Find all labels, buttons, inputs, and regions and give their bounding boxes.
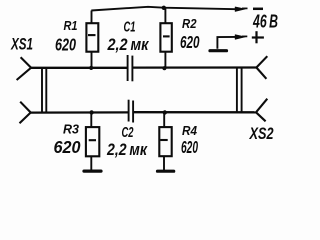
cable marks left <box>42 68 46 114</box>
node R2/top wire <box>162 66 166 70</box>
node R4/bottom wire <box>163 110 167 114</box>
node rail/R2 <box>162 6 166 10</box>
ground (top right) <box>210 49 227 52</box>
wire R3 stem bottom <box>90 156 92 170</box>
top line wire (left of C1) <box>31 67 127 69</box>
top line wire (right of C1) <box>133 66 257 68</box>
capacitor C2 <box>129 100 134 123</box>
svg-text:R3: R3 <box>63 122 80 137</box>
wire R2 stem bottom <box>164 52 166 69</box>
connector XS1 pin top <box>17 57 32 80</box>
svg-text:2,2 мк: 2,2 мк <box>106 140 148 159</box>
bottom line wire (left of C2) <box>31 111 129 113</box>
svg-text:620: 620 <box>180 32 200 52</box>
ground (R3) <box>84 170 101 173</box>
connector XS1 pin bottom <box>20 102 31 124</box>
plus sign <box>252 31 264 43</box>
top supply rail <box>91 7 236 11</box>
plus lead wire <box>217 37 236 49</box>
wire R3 stem top <box>90 113 92 128</box>
plus lead arrow <box>242 35 247 37</box>
svg-text:2,2 мк: 2,2 мк <box>107 35 150 54</box>
ground (R4) <box>158 170 174 173</box>
svg-text:620: 620 <box>55 34 76 54</box>
svg-text:620: 620 <box>54 137 81 157</box>
node R1/top wire <box>89 66 93 70</box>
wire R1 stem top <box>91 11 93 24</box>
svg-text:XS1: XS1 <box>10 36 33 54</box>
svg-text:C2: C2 <box>122 125 134 141</box>
connector XS2 pin top <box>256 56 267 79</box>
bottom line wire (right of C2) <box>133 111 256 113</box>
wire R4 stem bottom <box>163 156 165 170</box>
connector XS2 pin bottom <box>256 99 267 122</box>
wire R2 stem top <box>164 8 166 23</box>
resistor R4 <box>159 127 171 156</box>
svg-text:R1: R1 <box>64 18 78 33</box>
resistor R3 <box>86 127 99 156</box>
cable marks right <box>237 67 242 113</box>
resistor R1 <box>86 23 98 52</box>
node R3/bottom wire <box>89 110 93 114</box>
wire R4 stem top <box>163 112 165 127</box>
rail arrow to -46V <box>242 7 248 9</box>
svg-text:R4: R4 <box>182 123 198 138</box>
resistor R2 <box>160 23 171 52</box>
svg-text:620: 620 <box>181 137 198 157</box>
minus sign <box>253 8 263 11</box>
svg-text:XS2: XS2 <box>249 125 274 143</box>
wire R1 stem bottom <box>91 52 93 68</box>
capacitor C1 <box>128 55 133 81</box>
svg-text:R2: R2 <box>182 16 197 31</box>
svg-text:C1: C1 <box>124 19 136 35</box>
svg-text:46 В: 46 В <box>252 12 278 32</box>
